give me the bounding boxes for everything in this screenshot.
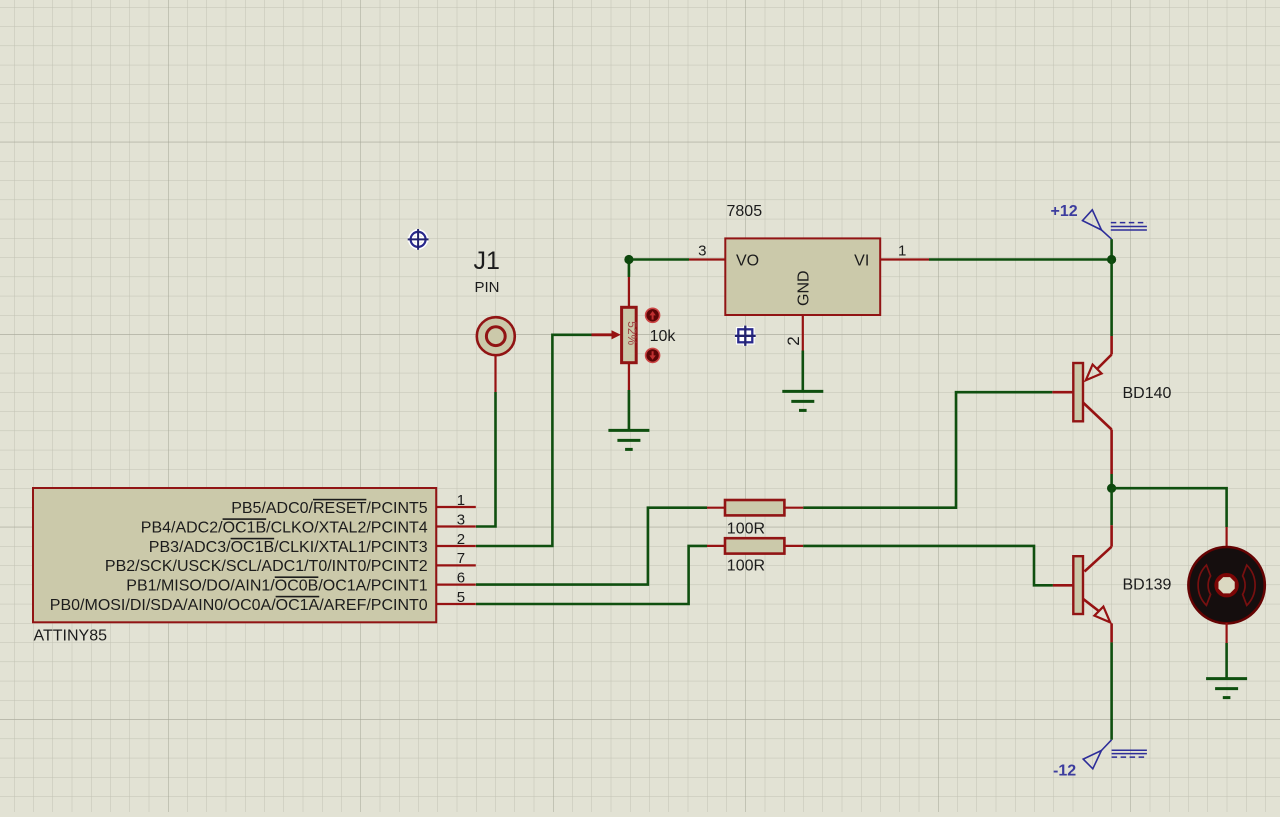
svg-text:5: 5: [457, 589, 465, 606]
svg-text:VI: VI: [854, 252, 869, 269]
wire U1 pin 5 to R2: [476, 546, 707, 604]
node B junction dot: [1107, 255, 1116, 264]
svg-text:ATTINY85: ATTINY85: [34, 628, 108, 645]
svg-text:VO: VO: [736, 252, 759, 269]
RV1 bottom pin stub: [628, 363, 630, 390]
wire R2 right to Q2 base: [803, 546, 1053, 585]
wire U1 pin 6 to R1: [476, 508, 707, 585]
-12 power symbol bars: [1112, 750, 1147, 757]
wire U1 pin 2 to RV1 wiper: [476, 335, 592, 546]
wire node C to Q2 collector: [1110, 488, 1113, 525]
svg-text:7: 7: [457, 550, 465, 567]
ground below motor: [1206, 679, 1247, 698]
connector J1 symbol: [477, 317, 515, 355]
pin 6 stub of ATTINY85: [436, 583, 476, 585]
potentiometer RV1 body: [622, 307, 637, 362]
svg-text:PB3/ADC3/OC1B/CLKI/XTAL1/PCINT: PB3/ADC3/OC1B/CLKI/XTAL1/PCINT3: [149, 539, 428, 556]
Q2 emitter arrow (NPN, points out): [1094, 607, 1110, 623]
svg-text:7805: 7805: [727, 203, 763, 220]
wire R1 right to Q1 base: [803, 392, 1052, 508]
node A junction dot: [624, 255, 633, 264]
pin 5 stub of ATTINY85: [436, 603, 476, 605]
R1 right stub: [784, 507, 803, 509]
RV1 down button: [646, 348, 660, 362]
wire node A to RV1 top: [628, 260, 631, 278]
+12 power arrow triangle: [1083, 210, 1112, 239]
svg-text:1: 1: [898, 242, 906, 259]
pin stub of J1: [494, 355, 496, 392]
Q1 base stub: [1052, 391, 1073, 394]
wire U2 pin 2 to ground: [801, 351, 804, 392]
svg-text:6: 6: [457, 569, 465, 586]
resistor R2 body: [725, 538, 784, 553]
wire motor to ground: [1225, 643, 1228, 679]
wire node C to motor: [1112, 488, 1227, 527]
svg-text:3: 3: [457, 511, 465, 528]
svg-text:BD139: BD139: [1123, 577, 1172, 594]
svg-text:PB2/SCK/USCK/SCL/ADC1/T0/INT0/: PB2/SCK/USCK/SCL/ADC1/T0/INT0/PCINT2: [105, 558, 428, 575]
svg-text:100R: 100R: [727, 558, 765, 575]
wire +12 to node B: [1110, 239, 1113, 259]
pin 2 stub of ATTINY85: [436, 545, 476, 547]
node C junction dot: [1107, 484, 1116, 493]
svg-text:52%: 52%: [625, 321, 639, 345]
wire node A to U2 pin 3: [629, 258, 689, 261]
pin 7 stub of ATTINY85: [436, 564, 476, 566]
IC U1 ATTINY85 body: [33, 488, 436, 622]
wire U2 pin 1 to node B: [929, 258, 1112, 261]
wire J1 to U1 pin 3: [476, 392, 496, 527]
svg-text:10k: 10k: [650, 328, 677, 345]
RV1 top pin stub: [628, 277, 630, 307]
resistor R1 body: [725, 500, 784, 515]
svg-text:PB5/ADC0/RESET/PCINT5: PB5/ADC0/RESET/PCINT5: [231, 500, 428, 517]
Q2 base stub: [1053, 584, 1073, 587]
svg-text:+12: +12: [1051, 203, 1078, 220]
svg-text:PB0/MOSI/DI/SDA/AIN0/OC0A/OC1A: PB0/MOSI/DI/SDA/AIN0/OC0A/OC1A/AREF/PCIN…: [50, 597, 428, 614]
origin marker square: [735, 326, 756, 346]
origin marker crosshair: [408, 229, 429, 250]
svg-text:GND: GND: [796, 270, 813, 306]
wire Q2 emitter to -12: [1110, 642, 1113, 739]
transistor Q2 base bar: [1073, 556, 1083, 614]
svg-text:2: 2: [784, 336, 803, 345]
motor bottom stub: [1225, 623, 1227, 643]
RV1 up button: [646, 308, 660, 322]
svg-text:J1: J1: [474, 247, 500, 275]
wire node B to Q1 emitter: [1110, 260, 1113, 337]
svg-text:100R: 100R: [727, 520, 765, 537]
R2 right stub: [784, 545, 803, 547]
Q1 emitter stub: [1097, 336, 1112, 369]
svg-text:3: 3: [698, 242, 706, 259]
svg-text:BD140: BD140: [1123, 385, 1172, 402]
U2 pin 3 stub: [689, 258, 725, 260]
pin 1 stub of ATTINY85: [436, 506, 476, 508]
svg-text:1: 1: [457, 492, 465, 509]
regulator U2 7805 body: [725, 238, 880, 315]
motor M1 body: [1188, 547, 1264, 623]
U2 pin 1 stub: [880, 258, 929, 260]
Q2 collector stub: [1085, 525, 1112, 571]
wire RV1 bottom to ground: [628, 390, 631, 430]
-12 power arrow triangle: [1083, 740, 1111, 769]
Q2 emitter stub: [1083, 599, 1112, 643]
RV1 wiper arrow: [592, 330, 621, 339]
transistor Q1 base bar: [1073, 363, 1083, 421]
R2 left stub: [707, 545, 725, 547]
+12 power symbol bars: [1111, 223, 1147, 230]
ground below RV1: [608, 430, 649, 449]
wire Q1 collector to node C: [1110, 474, 1113, 488]
U2 pin 2 stub: [802, 315, 804, 351]
Q1 collector stub: [1083, 403, 1112, 475]
svg-text:PB4/ADC2/OC1B/CLKO/XTAL2/PCINT: PB4/ADC2/OC1B/CLKO/XTAL2/PCINT4: [141, 519, 428, 536]
ground below U2: [782, 391, 823, 410]
Q1 emitter arrow (PNP, points into base): [1086, 365, 1102, 381]
svg-text:-12: -12: [1053, 762, 1076, 779]
svg-text:PB1/MISO/DO/AIN1/OC0B/OC1A/PCI: PB1/MISO/DO/AIN1/OC0B/OC1A/PCINT1: [126, 577, 428, 594]
svg-text:PIN: PIN: [475, 279, 500, 296]
pin 3 stub of ATTINY85: [436, 525, 476, 527]
motor top stub: [1225, 527, 1227, 548]
svg-text:2: 2: [457, 531, 465, 548]
R1 left stub: [707, 507, 725, 509]
